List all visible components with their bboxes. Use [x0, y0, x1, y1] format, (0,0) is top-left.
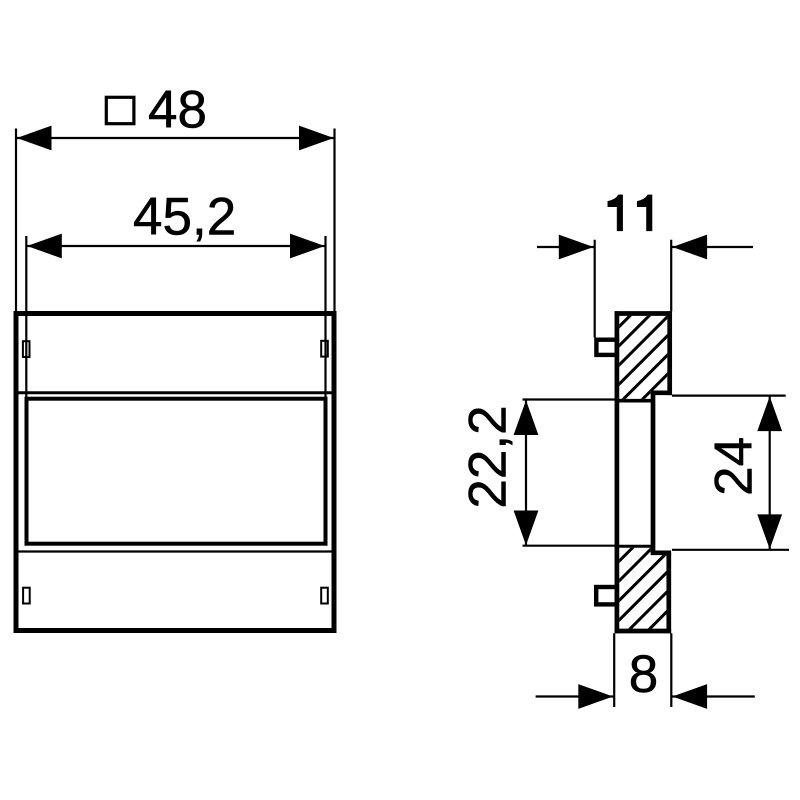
dimension 24: dimension line	[769, 397, 771, 550]
dimension 45,2: arrow left	[27, 234, 62, 259]
clip top-left	[23, 341, 30, 357]
step edge bottom block	[651, 550, 671, 555]
dimension 24: arrow down	[757, 514, 782, 549]
inner window rectangle	[27, 399, 326, 544]
left wall (full height)	[615, 311, 620, 633]
dimension 48: arrow left	[17, 126, 52, 151]
dimension 45,2: extension line left	[25, 236, 27, 400]
dimension 22,2: arrow up	[514, 400, 539, 435]
top edge of bezel	[615, 311, 672, 316]
dimension 48: extension line left	[15, 129, 17, 312]
outer square frame	[16, 314, 334, 631]
svg-text:24: 24	[704, 437, 763, 496]
body right wall	[651, 393, 656, 553]
divider line lower	[18, 550, 331, 552]
dimension 8: arrow right (pointing left)	[672, 684, 707, 709]
dimension 24: extension line bottom	[672, 549, 789, 551]
dimension 45,2: arrow right	[290, 234, 325, 259]
svg-text:45,2: 45,2	[133, 188, 236, 247]
divider line upper	[19, 391, 332, 394]
side profile outline	[615, 311, 672, 633]
svg-text:8: 8	[629, 645, 658, 704]
clip top-right	[321, 341, 328, 357]
dimension 8: dimension line right tail	[672, 695, 755, 697]
square symbol	[106, 97, 134, 123]
hatch pattern top block	[526, 290, 771, 420]
top mounting tab	[596, 340, 617, 355]
dimension 8: arrow left (pointing right)	[578, 684, 613, 709]
top edge of bottom block	[615, 545, 653, 548]
bottom edge of bottom block	[615, 629, 672, 634]
dimension 22,2: extension line bottom	[523, 545, 615, 547]
dimension 22,2: extension line top	[523, 398, 615, 400]
dimension 11: dimension line left tail	[537, 246, 594, 248]
dimension 8: extension line right	[670, 633, 672, 707]
dimension 11: extension line right	[670, 240, 672, 312]
bottom edge of top block	[615, 399, 653, 403]
dimension 24: arrow up	[757, 396, 782, 431]
step edge top block	[651, 390, 672, 395]
right edge of top block	[667, 311, 672, 395]
dimension 8: dimension line left tail	[536, 695, 614, 697]
hatch pattern bottom block	[530, 500, 778, 650]
dimension 24: extension line top	[672, 395, 786, 397]
dimension 48: extension line right	[333, 129, 335, 312]
dimension 11: dimension line right tail	[672, 246, 753, 248]
dimension 48: arrow right	[299, 126, 334, 151]
svg-text:22,2: 22,2	[458, 405, 517, 508]
dimension 8: extension line left	[613, 633, 615, 707]
dimension 11: arrow right (pointing left)	[672, 235, 707, 260]
right edge of bottom block	[666, 553, 671, 634]
bottom mounting tab	[596, 587, 617, 604]
svg-text:48: 48	[148, 81, 207, 140]
clip bottom-left	[23, 588, 30, 604]
label 11 (drawn as paths, Arial-style numeral one)	[608, 195, 623, 231]
dimension 45,2: dimension line	[27, 245, 325, 247]
dimension 11: extension line left	[594, 240, 596, 338]
clip bottom-right	[321, 588, 328, 604]
dimension 22,2: arrow down	[514, 511, 539, 546]
dimension 45,2: extension line right	[324, 236, 326, 400]
dimension 48: dimension line	[17, 137, 334, 139]
dimension 22,2: dimension line	[525, 401, 527, 546]
dimension 11: arrow left (pointing right)	[559, 235, 594, 260]
